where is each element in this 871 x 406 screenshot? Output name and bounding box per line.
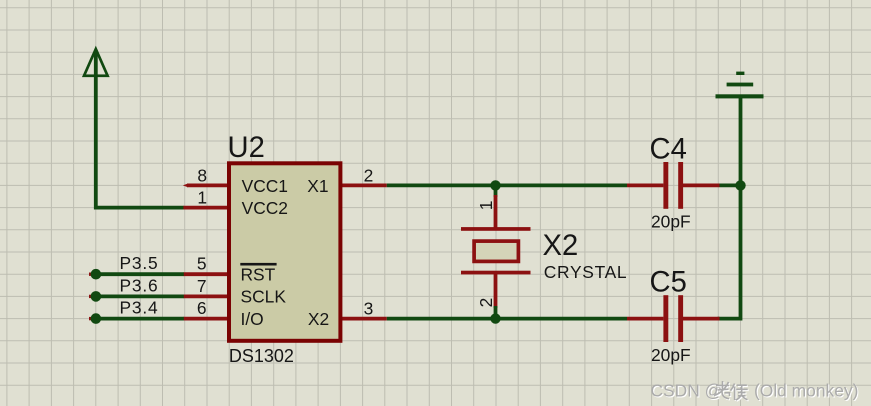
svg-text:VCC2: VCC2 (242, 198, 288, 218)
capacitor C5 left pin (627, 317, 663, 321)
U2 pin 3 stub (X2) (341, 317, 387, 321)
U2 pin 1 stub (VCC2) (183, 206, 229, 210)
svg-text:6: 6 (197, 298, 207, 318)
crystal X2 bottom plate (461, 271, 531, 275)
svg-text:7: 7 (197, 276, 207, 296)
svg-text:C5: C5 (650, 267, 687, 299)
capacitor C5 left plate (663, 295, 668, 342)
junction dot X2/crystal (490, 313, 500, 323)
svg-text:X1: X1 (307, 176, 328, 196)
U2 pin 8 stub (VCC1, unconnected taper end) (183, 184, 229, 188)
X2 value label CRYSTAL (544, 262, 628, 282)
pin number 5 (197, 254, 207, 274)
svg-text:VCC1: VCC1 (242, 176, 288, 196)
U2 pin 2 stub (X1) (341, 183, 387, 187)
svg-text:1: 1 (476, 201, 496, 211)
pin number 8 (197, 165, 207, 185)
capacitor C5 right plate (678, 295, 683, 342)
svg-text:CRYSTAL: CRYSTAL (544, 262, 628, 282)
wire ground rail vertical (739, 95, 743, 321)
svg-text:8: 8 (197, 165, 207, 185)
terminal P3.6 wire (89, 295, 184, 298)
terminal P3.5 wire (89, 273, 184, 276)
net label P3.6 (120, 275, 159, 295)
svg-text:DS1302: DS1302 (229, 346, 294, 366)
svg-text:P3.5: P3.5 (120, 253, 159, 273)
wire U2.X2 to crystal/C5 net (387, 317, 627, 321)
pin name VCC1 (242, 176, 288, 196)
svg-text:(Old monkey): (Old monkey) (754, 381, 858, 401)
crystal X2 top plate (461, 227, 531, 231)
svg-text:CSDN @: CSDN @ (651, 381, 723, 401)
pin name SCLK (241, 287, 287, 307)
net label P3.4 (120, 298, 159, 318)
pin name RST with overline (240, 263, 276, 285)
svg-text:SCLK: SCLK (241, 287, 287, 307)
pin number 6 (197, 298, 207, 318)
svg-text:I/O: I/O (241, 309, 264, 329)
svg-text:3: 3 (364, 298, 374, 318)
U2 pin 6 stub (I/O) (183, 317, 229, 321)
svg-text:2: 2 (476, 298, 496, 308)
node dot P3.6 (91, 291, 102, 302)
svg-text:5: 5 (197, 254, 207, 274)
C5 reference label (650, 267, 687, 299)
power terminal +V (arrow) (84, 49, 108, 76)
svg-text:20pF: 20pF (651, 345, 691, 365)
pin name X1 (307, 176, 328, 196)
pin number 2 (364, 165, 374, 185)
wire C4 right to ground rail (720, 183, 741, 187)
crystal pin number 1 (476, 201, 496, 211)
capacitor C4 right plate (678, 162, 683, 209)
watermark CSDN (651, 381, 860, 402)
op-amp U1 chip body U2 DS1302 (229, 163, 340, 340)
X2 reference label (543, 230, 579, 262)
svg-text:X2: X2 (308, 309, 329, 329)
C4 reference label (650, 134, 687, 166)
junction dot C4/ground rail (735, 180, 745, 190)
svg-text:20pF: 20pF (651, 212, 691, 232)
pin name X2 (308, 309, 329, 329)
svg-text:P3.4: P3.4 (120, 298, 159, 318)
U2 pin 7 stub (SCLK) (183, 294, 229, 298)
crystal X2 pin 2 stub (494, 272, 498, 319)
capacitor C4 left pin (627, 183, 663, 187)
junction dot X1/crystal (490, 180, 500, 190)
crystal X2 body (474, 241, 518, 261)
capacitor C5 right pin (683, 317, 720, 321)
pin number 7 (197, 276, 207, 296)
capacitor C4 right pin (683, 183, 720, 187)
wire C5 right to ground rail corner (718, 317, 741, 321)
ground (716, 72, 764, 99)
wire power to U2.VCC2 (96, 52, 184, 208)
svg-text:2: 2 (364, 165, 374, 185)
pin name VCC2 (242, 198, 288, 218)
node dot P3.4 (91, 313, 102, 324)
U2 reference label (228, 132, 265, 164)
svg-text:C4: C4 (650, 134, 687, 166)
U2 value label DS1302 (229, 346, 294, 366)
pin name I/O (241, 309, 264, 329)
pin number 3 (364, 298, 374, 318)
C4 value label 20pF (651, 212, 691, 232)
net label P3.5 (120, 253, 159, 273)
svg-text:P3.6: P3.6 (120, 275, 159, 295)
crystal pin number 2 (476, 298, 496, 308)
U2 pin 5 stub (RST) (183, 272, 229, 276)
capacitor C4 left plate (663, 162, 668, 209)
svg-text:1: 1 (197, 188, 207, 208)
wire U2.X1 to crystal/C4 net (387, 183, 627, 187)
svg-text:U2: U2 (228, 132, 265, 164)
svg-text:RST: RST (241, 264, 276, 284)
C5 value label 20pF (651, 345, 691, 365)
node dot P3.5 (91, 269, 102, 280)
terminal P3.4 wire (89, 317, 184, 320)
crystal X2 pin 1 stub (494, 185, 498, 230)
pin number 1 (197, 188, 207, 208)
svg-text:X2: X2 (543, 230, 579, 262)
